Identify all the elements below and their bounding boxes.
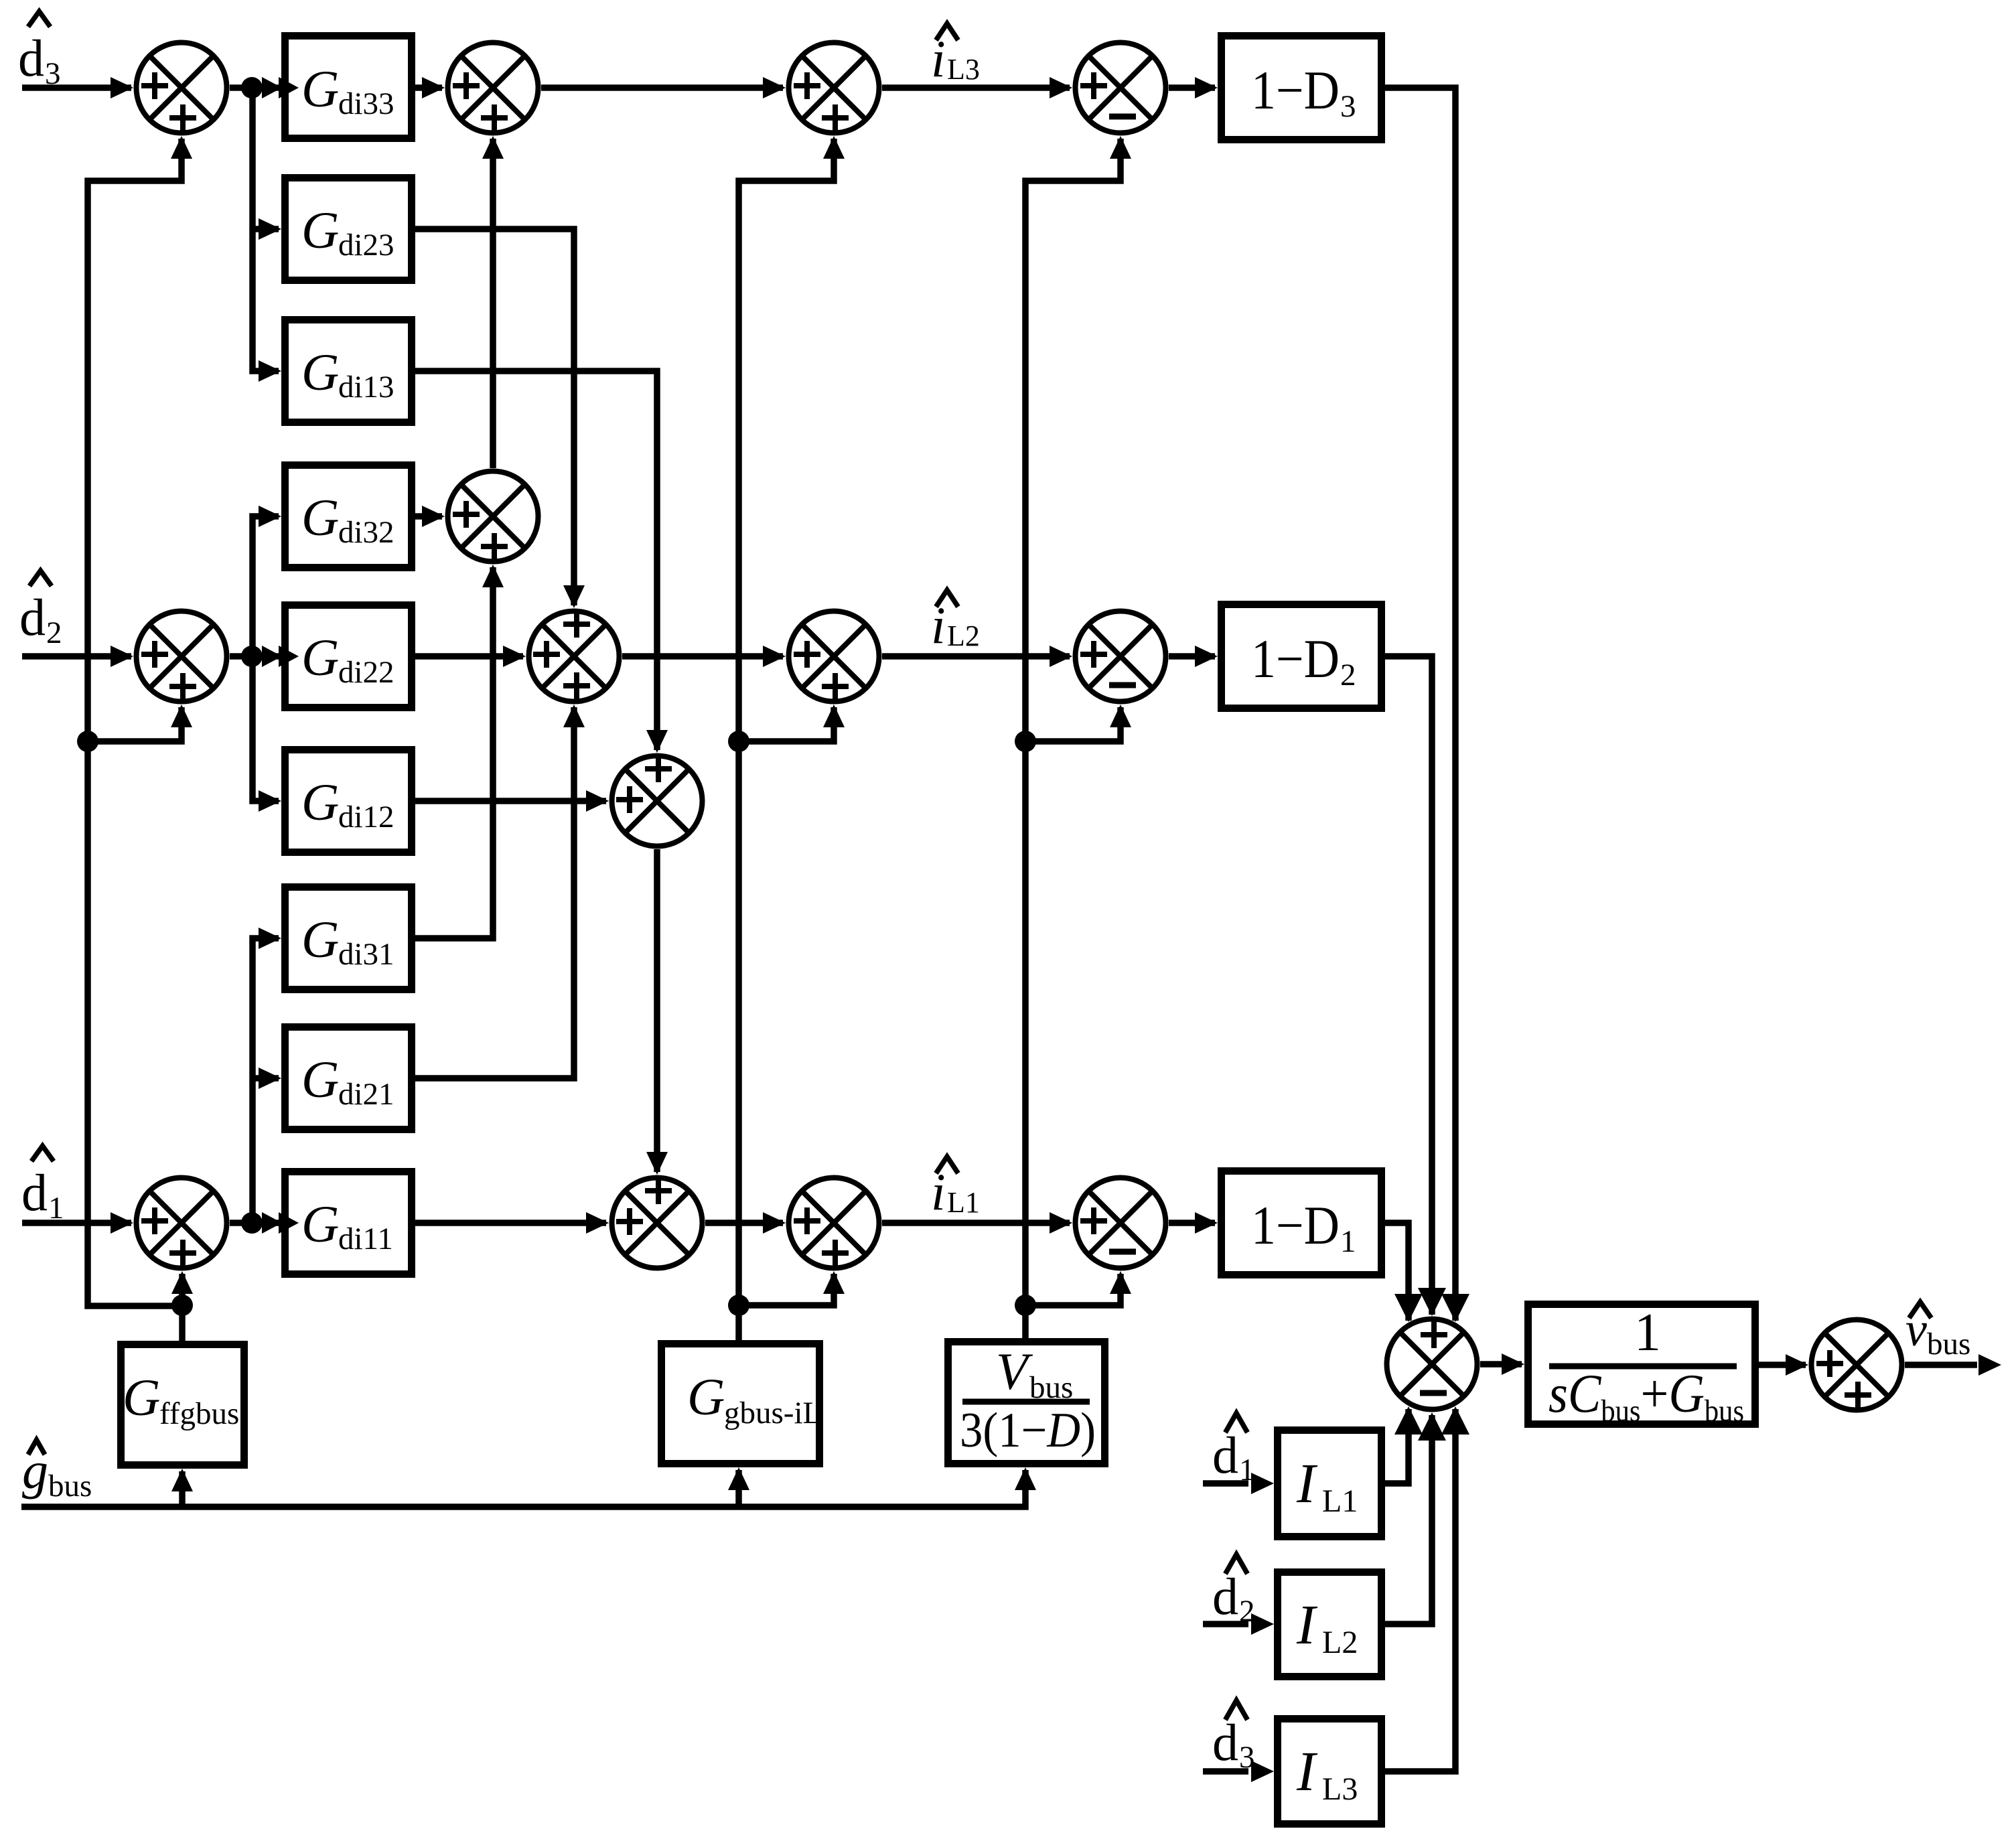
svg-text:i: i xyxy=(931,29,946,88)
node gbus_hat input label xyxy=(28,1440,45,1455)
wire S4 to 1-D3 xyxy=(1169,84,1215,91)
block IL2 xyxy=(1278,1572,1382,1677)
svg-text:di12: di12 xyxy=(338,800,394,834)
wire S5 to Gdi22 with double arrows xyxy=(230,653,281,660)
wire d3 into IL3 xyxy=(1203,1768,1248,1775)
summing junction S10 (row3 mid) xyxy=(612,1177,703,1268)
svg-text:G: G xyxy=(301,488,339,546)
svg-text:di33: di33 xyxy=(338,86,394,121)
node d3_hat label bottom xyxy=(1226,1700,1248,1720)
svg-text:di31: di31 xyxy=(338,937,394,972)
summing junction Sout (vbus) xyxy=(1812,1320,1902,1410)
svg-text:I: I xyxy=(1296,1741,1318,1803)
summing junction S1 (d3 input) xyxy=(137,43,227,133)
node iL1_hat label xyxy=(936,1157,958,1173)
wire gbus branch to Ggbus-iL xyxy=(735,1470,742,1507)
wire Gdi32 to S13 xyxy=(415,513,442,520)
wire Gdi22 to S6 xyxy=(415,653,523,660)
svg-text:di32: di32 xyxy=(338,515,394,550)
block Gdi32 xyxy=(285,465,412,568)
node d2_hat label bottom xyxy=(1226,1554,1248,1574)
summing junction S11 (iL1 former) xyxy=(789,1178,879,1268)
svg-text:I: I xyxy=(1296,1594,1318,1656)
wire N2 branch up to Gdi32 xyxy=(253,516,279,656)
wire Vbus block output vertical to S4 xyxy=(1025,139,1121,1338)
node iL3_hat label xyxy=(936,23,958,40)
summing junction S14 (Gdi13+Gdi12) xyxy=(612,755,703,847)
wire branch to S7 xyxy=(739,707,834,741)
wire S12 to 1-D1 xyxy=(1169,1220,1215,1226)
summing junction S3 (iL3 former) xyxy=(789,43,879,133)
block IL1 xyxy=(1278,1430,1382,1537)
node Nv1 (Vbus dot row3) xyxy=(1015,1295,1036,1316)
svg-text:1: 1 xyxy=(1340,1224,1356,1259)
svg-text:G: G xyxy=(301,201,339,259)
svg-text:d: d xyxy=(1212,1426,1238,1484)
wire branch to S12 xyxy=(1025,1274,1121,1305)
wire S1 to Gdi33 with double arrows xyxy=(230,84,281,91)
wire Gdi21 output up to S6 xyxy=(415,707,574,1078)
svg-text:bus: bus xyxy=(48,1469,92,1503)
summing junction S13 (after Gdi32) xyxy=(448,471,538,562)
svg-text:i: i xyxy=(931,1163,946,1221)
svg-text:G: G xyxy=(301,773,339,831)
wire Gdi31 output up to S13 xyxy=(415,567,493,938)
wire vbus output xyxy=(1905,1362,1977,1368)
node Nm2 (gbus-iL dot row2) xyxy=(728,731,749,752)
wire N1 branch up to Gdi31 and Gdi21 xyxy=(253,938,279,1223)
node d1_hat input label xyxy=(31,1146,54,1161)
svg-text:3: 3 xyxy=(1340,89,1356,124)
svg-text:L2: L2 xyxy=(1322,1625,1358,1660)
summing junction S12 (iL1 minus) xyxy=(1076,1178,1166,1268)
node N3 (d3 branch dot) xyxy=(241,77,263,98)
wire d2 input xyxy=(22,653,131,660)
block Gdi21 xyxy=(285,1027,412,1130)
wire feedback vertical to S1 xyxy=(88,139,182,1306)
wire d1 input xyxy=(22,1220,131,1226)
wire S7 to S8 (iL2) xyxy=(882,653,1070,660)
svg-text:V: V xyxy=(996,1342,1033,1400)
svg-text:G: G xyxy=(301,628,339,686)
wire S14 output down to S10 xyxy=(654,849,660,1172)
svg-text:d: d xyxy=(19,588,46,646)
wire N3 branch down to Gdi23 and Gdi13 xyxy=(253,88,279,371)
wire 1-D3 output down to Sbig xyxy=(1385,88,1455,1321)
svg-text:di11: di11 xyxy=(338,1222,393,1256)
block Vbus over 3(1-D) xyxy=(948,1342,1105,1464)
block Gdi33 xyxy=(285,36,412,139)
summing junction Sbig (bus node) xyxy=(1387,1319,1478,1410)
svg-text:G: G xyxy=(301,60,339,118)
node d3_hat input label xyxy=(28,11,50,27)
svg-text:g: g xyxy=(22,1441,48,1499)
wire S3 to S4 (iL3) xyxy=(882,84,1070,91)
wire 1-D2 output down to Sbig xyxy=(1385,656,1432,1315)
wire branch to S11 xyxy=(739,1274,834,1305)
wire Sbig to 1/(sCbus+Gbus) xyxy=(1480,1361,1522,1368)
svg-text:I: I xyxy=(1296,1453,1318,1515)
svg-text:d: d xyxy=(1212,1713,1238,1771)
svg-text:L1: L1 xyxy=(1322,1483,1358,1519)
wire S9 to Gdi11 with double arrows xyxy=(230,1220,281,1226)
block Gdi31 xyxy=(285,887,412,990)
svg-text:di21: di21 xyxy=(338,1077,394,1112)
wire Gdi33 to S2 xyxy=(415,84,442,91)
wire N2 branch down to Gdi12 xyxy=(253,656,279,801)
svg-text:G: G xyxy=(687,1368,725,1426)
wire Gffgbus output up to S9 xyxy=(179,1274,186,1341)
wire d3 input xyxy=(22,84,131,91)
wire feedback branch to S5 xyxy=(88,707,182,741)
wire IL3 output up to Sbig xyxy=(1385,1409,1455,1771)
block 1-D3 xyxy=(1222,36,1382,140)
wire Ggbus-iL output vertical to S3 xyxy=(739,139,834,1340)
svg-text:1−D: 1−D xyxy=(1251,628,1340,689)
block Gdi23 xyxy=(285,178,412,281)
block Ggbus-iL xyxy=(662,1344,820,1464)
wire 1-D1 output down to Sbig xyxy=(1385,1223,1409,1321)
svg-text:d: d xyxy=(1212,1567,1238,1625)
wire S8 to 1-D2 xyxy=(1169,653,1215,660)
summing junction S5 (d2 input) xyxy=(137,611,227,702)
block Gdi11 xyxy=(285,1172,412,1274)
node d2_hat input label xyxy=(29,571,52,586)
svg-text:1−D: 1−D xyxy=(1251,60,1340,121)
svg-text:di23: di23 xyxy=(338,228,394,263)
svg-text:G: G xyxy=(123,1368,160,1426)
svg-text:L2: L2 xyxy=(947,619,980,652)
wire branch to S8 xyxy=(1025,707,1121,741)
svg-text:G: G xyxy=(301,343,339,401)
summing junction S2 (after Gdi33) xyxy=(448,43,538,133)
svg-text:d: d xyxy=(21,1163,48,1222)
svg-text:G: G xyxy=(301,1050,339,1108)
node Nm1 (gbus-iL dot row3) xyxy=(728,1295,749,1316)
wire block to Sout xyxy=(1759,1362,1806,1368)
summing junction S6 (three-input mid row2) xyxy=(529,611,620,702)
block IL3 xyxy=(1278,1719,1382,1824)
svg-text:1: 1 xyxy=(1634,1303,1661,1362)
svg-text:L3: L3 xyxy=(947,53,980,86)
node Nfb2 (feedback dot row2) xyxy=(77,731,98,752)
block Gffgbus xyxy=(121,1345,244,1465)
wire S6 to S7 xyxy=(622,653,783,660)
svg-text:G: G xyxy=(301,910,339,968)
svg-text:v: v xyxy=(1905,1303,1927,1356)
svg-text:L1: L1 xyxy=(947,1186,980,1219)
block Gdi13 xyxy=(285,320,412,423)
svg-text:d: d xyxy=(18,29,44,87)
node Nv2 (Vbus dot row2) xyxy=(1015,731,1036,752)
wire d1 into IL1 xyxy=(1203,1480,1248,1487)
svg-text:ffgbus: ffgbus xyxy=(159,1396,239,1431)
node Nfb1 (Gffgbus output dot) xyxy=(171,1295,193,1316)
block 1-D2 xyxy=(1222,605,1382,709)
block 1-D1 xyxy=(1222,1171,1382,1275)
wire gbus input line xyxy=(21,1470,1025,1507)
node N1 (d1 branch dot) xyxy=(241,1212,263,1234)
wire S2 to S3 xyxy=(541,84,783,91)
wire IL1 output up to Sbig xyxy=(1385,1409,1409,1483)
summing junction S8 (iL2 minus) xyxy=(1076,611,1166,702)
summing junction S9 (d1 input) xyxy=(137,1178,227,1268)
summing junction S4 (iL3 minus) xyxy=(1076,43,1166,133)
wire d2 into IL2 xyxy=(1203,1621,1248,1627)
svg-text:gbus-iL: gbus-iL xyxy=(724,1396,822,1430)
wire gbus branch to Gffgbus xyxy=(179,1471,186,1507)
block 1/(sCbus+Gbus) xyxy=(1528,1305,1755,1424)
svg-text:2: 2 xyxy=(46,615,62,650)
wire S10 to S11 xyxy=(705,1220,783,1226)
svg-text:3(1−D): 3(1−D) xyxy=(960,1403,1096,1458)
node N2 (d2 branch dot) xyxy=(241,646,263,667)
node d1_hat label bottom xyxy=(1226,1413,1248,1433)
node vbus_hat output label xyxy=(1910,1302,1932,1318)
wire Gdi13 output down to S14 xyxy=(415,371,657,750)
wire S11 to S12 (iL1) xyxy=(882,1220,1070,1226)
svg-text:bus: bus xyxy=(1927,1327,1970,1362)
svg-text:di22: di22 xyxy=(338,655,394,690)
block Gdi22 xyxy=(285,605,412,708)
svg-text:L3: L3 xyxy=(1322,1771,1358,1807)
svg-text:1−D: 1−D xyxy=(1251,1195,1340,1256)
wire S13 output up to S2 xyxy=(490,139,496,468)
svg-text:i: i xyxy=(931,596,946,654)
svg-text:di13: di13 xyxy=(338,370,394,405)
wire IL2 output up to Sbig xyxy=(1385,1415,1432,1624)
wire Gdi23 output down to S6 xyxy=(415,229,574,605)
svg-text:G: G xyxy=(301,1195,339,1253)
block Gdi12 xyxy=(285,750,412,853)
wire Gdi12 to S14 xyxy=(415,798,606,804)
node iL2_hat label xyxy=(936,590,958,607)
wire Gdi11 to S10 xyxy=(415,1220,606,1226)
svg-text:2: 2 xyxy=(1340,658,1356,692)
summing junction S7 (iL2 former) xyxy=(789,611,879,702)
